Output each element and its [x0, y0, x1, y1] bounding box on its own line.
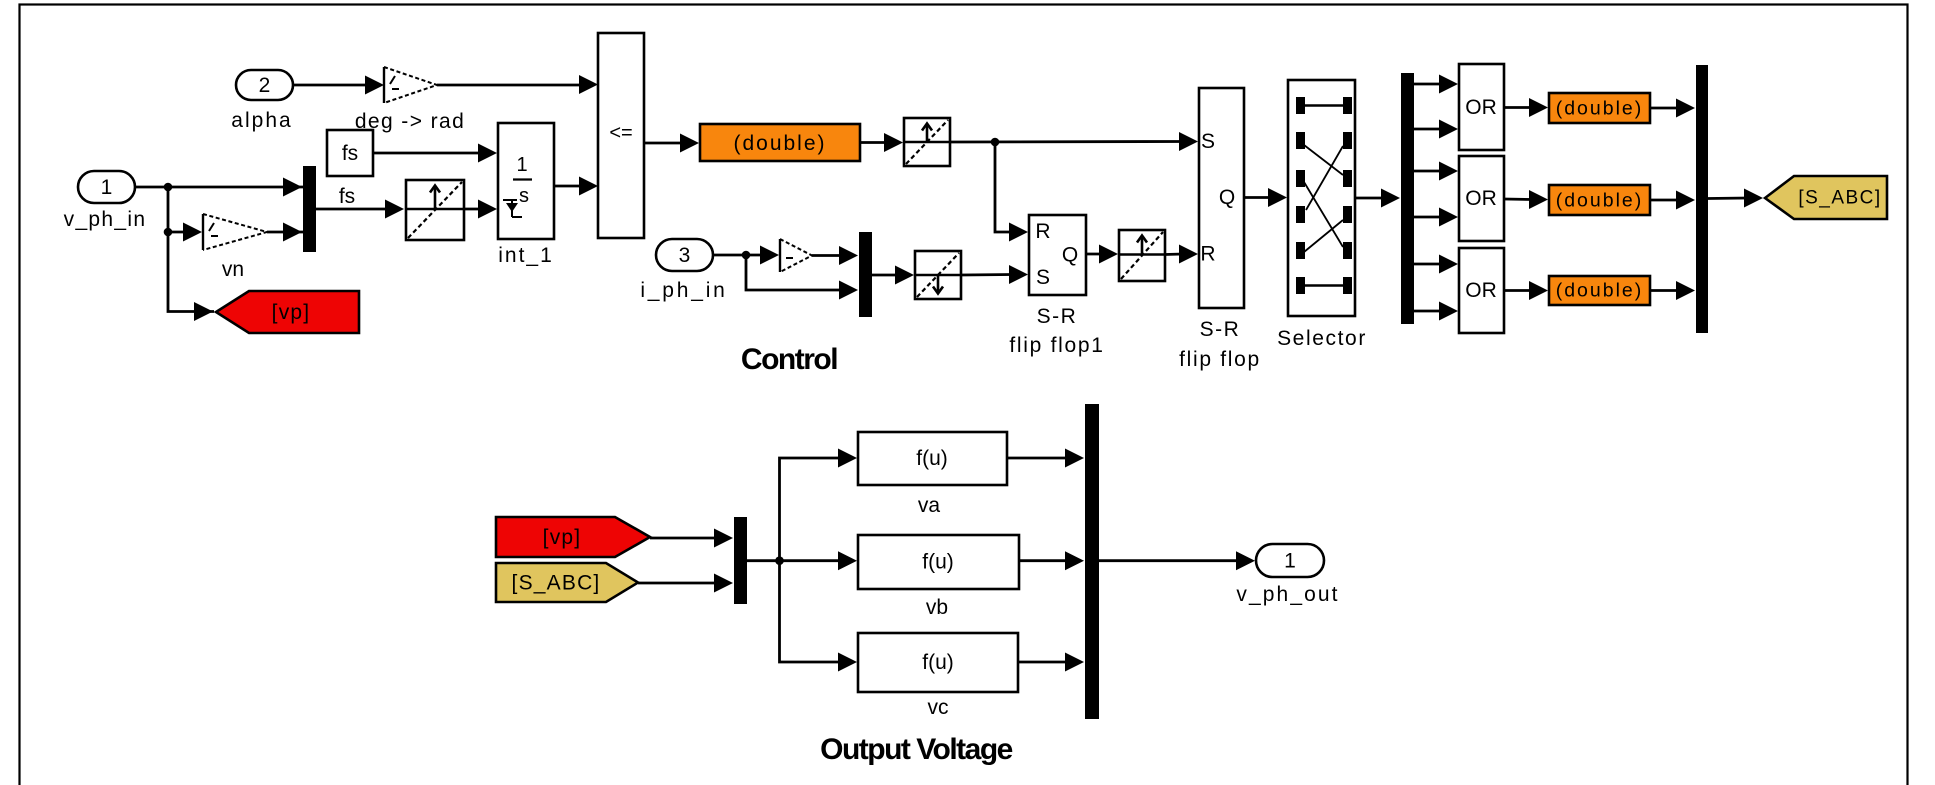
svg-text:(double): (double)	[1556, 190, 1644, 212]
node junction port1	[164, 183, 173, 192]
data type conversion (double) 2	[1549, 93, 1650, 123]
wire mux2 to hit crossing 4	[872, 266, 914, 285]
svg-text:Q: Q	[1219, 186, 1235, 209]
svg-text:v_ph_out: v_ph_out	[1236, 583, 1339, 606]
svg-text:(double): (double)	[1556, 280, 1644, 302]
wire flip flop1 Q to hit crossing 3	[1086, 245, 1118, 264]
mux2	[859, 232, 872, 317]
svg-text:v_ph_in: v_ph_in	[64, 208, 147, 231]
svg-text:[vp]: [vp]	[272, 301, 311, 324]
svg-text:R: R	[1035, 220, 1050, 243]
wire gain3 to mux2	[812, 246, 858, 265]
svg-text:OR: OR	[1465, 279, 1497, 302]
wire (double)3 to mux4	[1650, 191, 1695, 210]
wire relational to data type conversion	[644, 134, 699, 153]
svg-text:(double): (double)	[1556, 98, 1644, 120]
svg-text:f(u): f(u)	[922, 551, 954, 574]
svg-text:OR: OR	[1465, 96, 1497, 119]
logical operator OR 3	[1459, 248, 1504, 333]
wire hit crossing 2 to S input	[950, 132, 1198, 151]
fcn vc	[858, 633, 1018, 719]
wire demux2 to outport	[1099, 551, 1255, 570]
logical operator OR 2	[1459, 156, 1504, 241]
svg-text:vn: vn	[222, 258, 244, 281]
wire demux out 3	[1414, 162, 1458, 181]
wire selector to demux	[1355, 189, 1400, 208]
svg-text:Control: Control	[741, 343, 837, 376]
svg-text:1: 1	[516, 154, 527, 176]
svg-text:[S_ABC]: [S_ABC]	[512, 572, 601, 595]
hit crossing 3	[1119, 230, 1165, 281]
wire hit crossing 3 to R of S-R flip flop	[1165, 245, 1198, 264]
wire S-R flip flop Q to selector	[1244, 188, 1287, 207]
inport 1 v_ph_in	[64, 171, 147, 231]
svg-text:vc: vc	[928, 696, 949, 719]
svg-text:f(u): f(u)	[922, 651, 954, 674]
wire branch to fcn vc	[780, 561, 858, 672]
node junction fcn input	[775, 556, 784, 565]
inport 3 i_ph_in	[640, 239, 727, 302]
svg-text:3: 3	[679, 244, 691, 267]
svg-text:1: 1	[101, 176, 113, 199]
mux3	[734, 517, 747, 604]
svg-text:1: 1	[1284, 550, 1296, 573]
svg-text:R: R	[1200, 243, 1215, 266]
outport 1 v_ph_out	[1236, 544, 1339, 606]
svg-text:flip flop: flip flop	[1179, 348, 1261, 371]
wire hit crossing 4 to S of flip flop1	[961, 265, 1028, 284]
wire fs to int_1	[373, 144, 497, 163]
svg-text:<=: <=	[609, 122, 632, 144]
from tag [vp]	[496, 517, 650, 557]
wire port2 to gain	[293, 76, 384, 95]
svg-text:fs: fs	[342, 142, 358, 165]
wire hit crossing 1 to int_1	[464, 200, 497, 219]
svg-text:Q: Q	[1062, 244, 1078, 267]
svg-text:[S_ABC]: [S_ABC]	[1798, 188, 1881, 209]
wire fcn vc to demux2	[1018, 653, 1084, 672]
wire demux out 1	[1414, 75, 1458, 94]
wire OR1 to (double)2	[1504, 98, 1548, 117]
svg-text:S-R: S-R	[1200, 318, 1241, 341]
wire junction to gain vn	[168, 223, 202, 242]
svg-text:alpha: alpha	[231, 109, 292, 132]
wire OR3 to (double)4	[1504, 281, 1548, 300]
wire port3 to gain3	[713, 246, 779, 265]
node junction port3	[742, 251, 751, 260]
wire demux out 5	[1414, 255, 1458, 274]
selector	[1277, 80, 1367, 350]
wire (double)4 to mux4	[1650, 281, 1695, 300]
wire demux out 2	[1414, 120, 1458, 139]
logical operator OR 1	[1459, 64, 1504, 150]
wire demux out 4	[1414, 208, 1458, 227]
svg-text:OR: OR	[1465, 187, 1497, 210]
demux	[1401, 73, 1414, 324]
svg-text:Selector: Selector	[1277, 327, 1367, 350]
wire branch to fcn va	[780, 449, 858, 561]
gain deg->rad	[355, 67, 465, 133]
wire gain vn to mux1	[267, 223, 304, 242]
inport 2 alpha	[231, 70, 293, 132]
svg-text:s: s	[519, 185, 529, 207]
wire junction down to R of flip flop1	[995, 142, 1028, 242]
svg-text:S: S	[1036, 266, 1050, 289]
wire fcn va to demux2	[1007, 449, 1084, 468]
mux1	[303, 166, 316, 252]
svg-text:f(u): f(u)	[916, 447, 948, 470]
node junction S wire	[991, 138, 1000, 147]
title Output Voltage	[820, 733, 1013, 766]
title Control	[741, 343, 837, 376]
wire from vp to mux3	[650, 529, 733, 548]
S-R flip flop	[1179, 88, 1261, 371]
svg-text:(double): (double)	[733, 132, 826, 155]
svg-text:S-R: S-R	[1037, 305, 1078, 328]
svg-text:flip flop1: flip flop1	[1009, 334, 1104, 357]
wire (double) to hit crossing 2	[860, 133, 903, 152]
hit crossing 1	[406, 180, 464, 240]
svg-text:int_1: int_1	[498, 244, 554, 267]
svg-text:i_ph_in: i_ph_in	[640, 279, 727, 302]
wire (double)2 to mux4	[1650, 99, 1695, 118]
svg-text:Output Voltage: Output Voltage	[820, 733, 1013, 766]
wire fcn vb to demux2	[1019, 551, 1084, 570]
svg-text:2: 2	[259, 74, 271, 97]
demux2	[1085, 404, 1099, 719]
from tag [S_ABC]	[496, 563, 638, 602]
wire port3 branch to mux2	[746, 255, 858, 300]
node junction vn input	[164, 228, 173, 237]
integrator int_1	[498, 123, 554, 267]
constant fs	[327, 130, 373, 208]
data type conversion (double) 1	[700, 124, 860, 161]
S-R flip flop1	[1009, 215, 1104, 357]
wire OR2 to (double)3	[1504, 190, 1548, 209]
wire port1 branch down to goto vp	[168, 187, 214, 321]
svg-text:[vp]: [vp]	[543, 526, 582, 549]
fcn va	[858, 432, 1007, 517]
goto tag [S_ABC]	[1765, 176, 1887, 219]
hit crossing 4 (falling)	[915, 251, 961, 299]
svg-text:fs: fs	[339, 185, 355, 208]
svg-text:S: S	[1201, 130, 1215, 153]
wire gain to relational operator	[437, 75, 598, 94]
gain vn	[203, 214, 267, 281]
wire demux out 6	[1414, 302, 1458, 321]
data type conversion (double) 3	[1549, 185, 1650, 215]
wire mux3 to fcn vb	[747, 551, 857, 570]
hit crossing 2	[904, 118, 950, 166]
wire mux1 to hit crossing 1	[315, 200, 404, 219]
mux4	[1696, 65, 1708, 333]
svg-text:va: va	[918, 494, 941, 517]
wire int_1 to relational operator	[554, 177, 598, 196]
svg-text:vb: vb	[926, 596, 948, 619]
wire from S_ABC to mux3	[638, 574, 733, 593]
goto tag [vp]	[216, 291, 359, 333]
wire mux4 to goto S_ABC	[1708, 189, 1763, 208]
fcn vb	[858, 535, 1019, 619]
wire port1 to mux1	[135, 178, 304, 197]
data type conversion (double) 4	[1549, 276, 1650, 305]
gain 3	[780, 239, 812, 272]
relational operator <=	[598, 33, 644, 238]
